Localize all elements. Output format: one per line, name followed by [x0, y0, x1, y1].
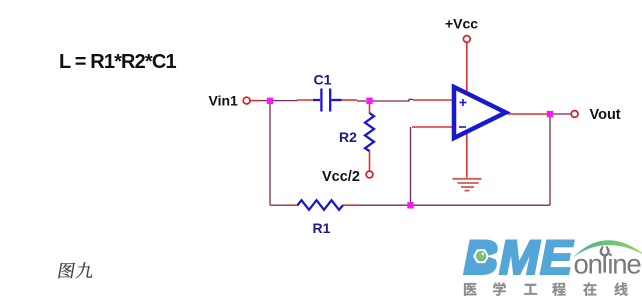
svg-text:Vout: Vout — [590, 107, 621, 123]
svg-text:Vcc/2: Vcc/2 — [322, 169, 360, 185]
svg-text:+Vcc: +Vcc — [445, 16, 478, 32]
svg-text:C1: C1 — [314, 71, 332, 87]
svg-text:Vin1: Vin1 — [209, 93, 239, 109]
svg-text:L = R1*R2*C1: L = R1*R2*C1 — [59, 51, 176, 73]
svg-text:on: on — [574, 248, 602, 279]
svg-text:R2: R2 — [339, 129, 357, 145]
svg-text:R1: R1 — [313, 220, 331, 236]
svg-text:ine: ine — [607, 248, 641, 279]
